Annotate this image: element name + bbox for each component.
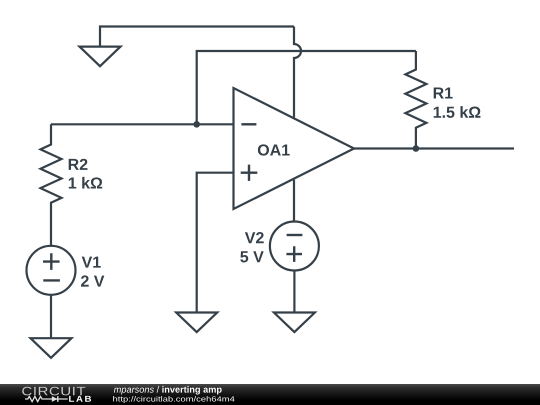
label R1: [434, 87, 453, 98]
label V1 value 2 V: [81, 275, 104, 286]
wire V1 to ground: [50, 295, 52, 338]
CircuitLab logo LAB text: [69, 396, 91, 402]
footer bar: [0, 384, 540, 405]
V2 plus sign: [286, 246, 302, 262]
op-amp plus input symbol: [241, 165, 258, 181]
node output junction: [413, 145, 420, 152]
wire V2 to ground: [293, 271, 295, 313]
label R2 value 1 kOhm: [69, 177, 102, 189]
wire op-amp V- pin to V2: [293, 180, 295, 222]
label V1: [82, 257, 101, 268]
V1 minus sign: [43, 279, 60, 281]
wire feedback net: [197, 51, 416, 124]
op-amp minus input symbol: [241, 123, 256, 125]
op-amp OA1 triangle: [234, 88, 355, 209]
resistor R1: [405, 51, 426, 149]
wire input net: [51, 123, 234, 125]
ground: [176, 313, 217, 333]
resistor R2: [41, 124, 62, 246]
ground: [80, 47, 121, 67]
V2 minus sign: [287, 234, 303, 236]
ground: [274, 313, 315, 333]
ground: [31, 338, 72, 358]
voltage source V1: [27, 246, 76, 295]
wire op-amp V+ pin with hop over feedback wire: [294, 27, 301, 118]
label V2 value 5 V: [240, 251, 263, 262]
CircuitLab logo CIRCUIT text: [22, 387, 85, 396]
label R2: [69, 159, 88, 170]
label OA1: [258, 144, 290, 155]
footer url: [113, 396, 234, 403]
wire top ground net: [100, 27, 294, 47]
node inverting input junction: [193, 121, 200, 128]
wire non-inverting input to ground: [197, 173, 234, 313]
logo resistor-diode squiggle: [25, 396, 68, 401]
footer author / title: [114, 386, 222, 395]
voltage source V2: [270, 222, 319, 271]
V1 plus sign: [43, 253, 60, 270]
label R1 value 1.5 kOhm: [434, 106, 481, 118]
label V2: [245, 232, 264, 243]
wire output net: [354, 147, 514, 149]
